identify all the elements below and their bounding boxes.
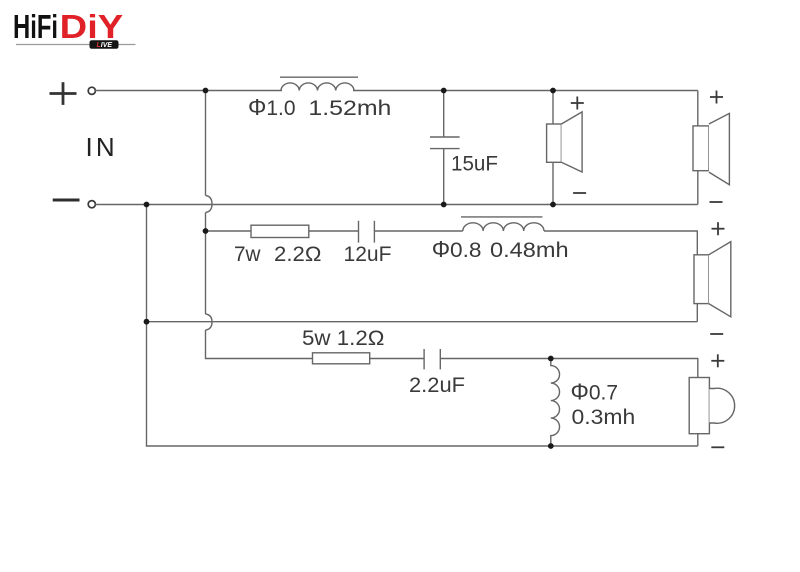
svg-text:2.2uF: 2.2uF <box>409 374 465 397</box>
svg-text:7w2.2Ω: 7w2.2Ω <box>234 243 321 266</box>
svg-text:12uF: 12uF <box>344 243 392 266</box>
input minus terminal <box>53 199 80 202</box>
logo underline <box>16 44 136 46</box>
logo LIVE badge <box>90 40 119 49</box>
wire hop over mid bottom rail <box>206 314 213 330</box>
wire hop over minus rail <box>206 196 213 213</box>
speaker S1 <box>547 112 583 172</box>
polarity marks S2 <box>710 91 724 203</box>
resistor R2 5w 1.2 ohm <box>313 353 370 364</box>
inductor L1 <box>280 76 358 78</box>
svg-text:LIVE: LIVE <box>97 42 113 49</box>
wire minus rail <box>95 204 698 206</box>
wire plus rail top <box>95 90 698 92</box>
wire mid bottom rail <box>147 321 698 323</box>
junction node dots <box>144 88 556 449</box>
wire plus trunk with hops <box>206 91 313 359</box>
svg-text:Φ1.01.52mh: Φ1.01.52mh <box>248 94 391 120</box>
svg-text:Φ0.80.48mh: Φ0.80.48mh <box>432 236 569 262</box>
wire minus trunk <box>147 205 698 447</box>
polarity marks S1 <box>571 97 586 194</box>
speaker S2 lead <box>697 91 699 205</box>
svg-text:15uF: 15uF <box>451 153 498 176</box>
wire bottom branch <box>370 359 698 378</box>
polarity marks S3 <box>710 222 724 334</box>
resistor R1 7w 2.2 ohm <box>251 225 309 237</box>
inductor L2 <box>461 216 542 218</box>
input minus circle <box>88 201 95 208</box>
capacitor C3 2.2uF <box>424 349 440 369</box>
speaker S3 lead <box>696 304 698 322</box>
capacitor C2 12uF <box>359 221 375 243</box>
svg-text:Φ0.7: Φ0.7 <box>571 379 619 405</box>
input plus circle <box>88 87 95 94</box>
svg-text:0.3mh: 0.3mh <box>572 406 636 429</box>
capacitor C1 15uF <box>430 91 460 205</box>
tweeter S4 <box>689 378 734 434</box>
speaker S3 <box>694 242 731 317</box>
svg-text:5w 1.2Ω: 5w 1.2Ω <box>302 327 385 350</box>
speaker S2 <box>693 113 729 184</box>
tweeter S4 lead <box>697 434 699 446</box>
svg-text:IN: IN <box>86 132 118 162</box>
polarity marks S4 <box>711 354 724 447</box>
inductor L3 <box>551 359 560 447</box>
wire mid branch <box>206 231 698 255</box>
speaker S1 leads <box>552 91 554 205</box>
input plus terminal <box>50 82 77 105</box>
